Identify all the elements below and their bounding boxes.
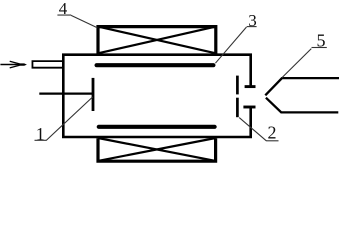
anode plate (bottom)	[99, 125, 215, 129]
label 3	[247, 11, 257, 30]
extraction electrode 2 (upper plate)	[236, 76, 239, 95]
anode plate 3 (top)	[97, 63, 214, 67]
cathode lead	[39, 92, 93, 94]
extraction electrode 2 (lower plate)	[236, 98, 239, 118]
label 5	[312, 31, 327, 51]
chamber exit flange upper	[245, 85, 256, 88]
skimmer 5 (upper horn)	[265, 78, 339, 95]
leader line to label 3	[215, 27, 246, 63]
label 4	[57, 0, 71, 18]
svg-text:2: 2	[268, 123, 277, 143]
chamber exit flange lower	[243, 106, 255, 109]
label 2	[266, 123, 278, 143]
inlet tube	[32, 61, 62, 68]
cathode 1 (bar)	[92, 78, 95, 111]
coil 4 (top winding box with X)	[98, 27, 216, 54]
leader line to label 2	[239, 118, 266, 141]
leader line to label 5	[282, 49, 311, 78]
leader line to label 4	[71, 15, 97, 27]
skimmer 5 (lower horn)	[266, 98, 338, 113]
coil (bottom winding box with X)	[98, 138, 216, 161]
svg-text:1: 1	[36, 124, 45, 144]
chamber body	[63, 55, 250, 137]
gas inlet arrow	[0, 61, 27, 68]
leader line to label 1	[46, 97, 93, 141]
label 1	[35, 124, 47, 144]
